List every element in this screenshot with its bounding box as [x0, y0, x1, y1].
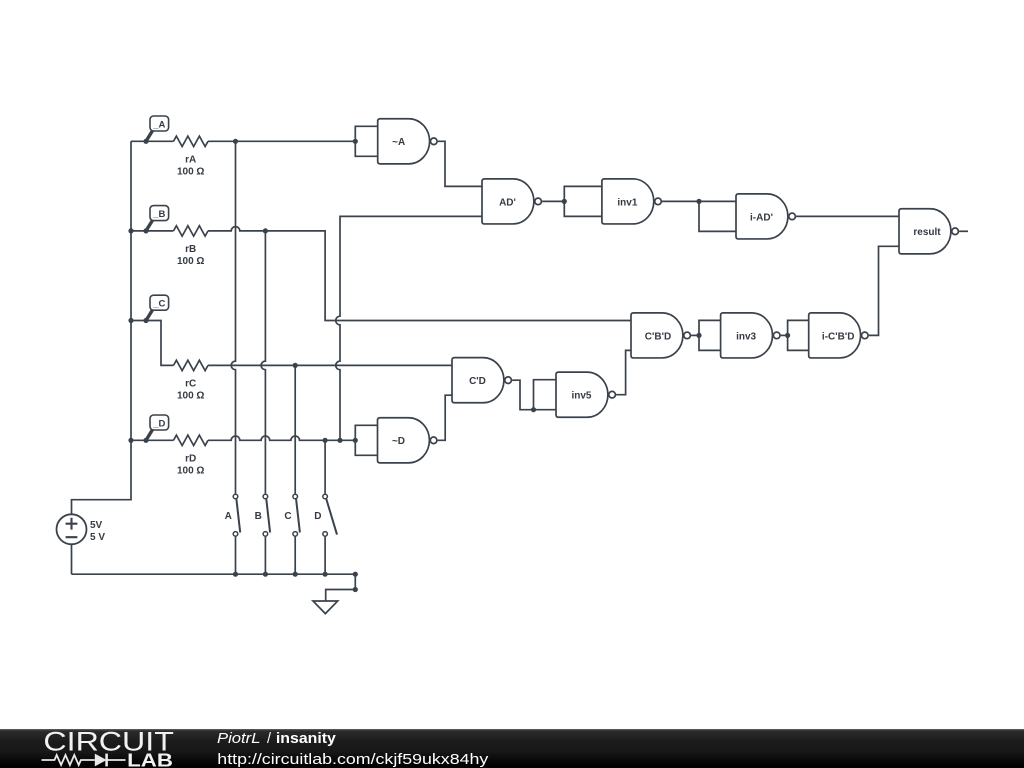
resistor rA: [174, 136, 209, 177]
NAND gate i-C&#39;B&#39;D (U8): [809, 313, 868, 358]
resistor rC: [174, 360, 209, 401]
wire row A from rA to ~A input tie: [208, 140, 355, 142]
svg-text:~A: ~A: [392, 137, 405, 148]
svg-text:_B: _B: [152, 209, 165, 220]
NAND gate ~A (U1): [378, 119, 437, 164]
svg-text:100 Ω: 100 Ω: [177, 167, 204, 178]
node junction row C / column C: [293, 363, 298, 368]
svg-text:AD': AD': [499, 197, 516, 208]
svg-text:B: B: [255, 511, 262, 522]
svg-text:100 Ω: 100 Ω: [177, 466, 204, 477]
svg-text:result: result: [913, 227, 941, 238]
wire ~A output to AD&#39; top input: [438, 141, 482, 186]
wire ground rail: [72, 573, 356, 575]
node rail junction A: [233, 572, 238, 577]
wire i-C&#39;B&#39;D output up to result bottom input: [869, 246, 899, 335]
node junction row B / column B: [263, 228, 268, 233]
node flag _A: [146, 116, 169, 141]
node inv5 tie junction: [531, 407, 536, 412]
wire C&#39;B&#39;D output to inv3 tie: [691, 334, 699, 336]
wire inv5 output up to C&#39;B&#39;D bottom input: [616, 350, 631, 394]
switch A: [225, 494, 241, 536]
svg-text:_C: _C: [152, 299, 165, 310]
NAND gate ~D (U11): [378, 418, 437, 463]
wire row D from rD to ~D input tie: [208, 436, 355, 440]
svg-text:rD: rD: [185, 454, 196, 465]
NAND gate i-AD&#39; (U4): [736, 194, 795, 239]
wire inv3 output to i-C&#39;B&#39;D tie: [781, 334, 788, 336]
wire result output stub: [959, 230, 968, 232]
svg-text:inv1: inv1: [617, 197, 637, 208]
node junction row D / AD&#39; input wire: [337, 438, 342, 443]
NAND gate inv5 (U10): [556, 372, 615, 417]
svg-text:5V: 5V: [90, 520, 103, 531]
wire row B lead from bus to rB: [131, 230, 174, 232]
node ~D tie junction: [353, 438, 358, 443]
NAND gate result (U5): [899, 209, 958, 254]
node junction row D / column D: [323, 438, 328, 443]
svg-text:i-C'B'D: i-C'B'D: [822, 331, 855, 342]
NAND gate AD&#39; (U2): [482, 179, 541, 224]
node rail junction C: [293, 572, 298, 577]
node rail junction D: [323, 572, 328, 577]
wire inv1 output to i-AD&#39; tie: [662, 200, 699, 202]
wire switch A to ground rail: [235, 537, 237, 575]
svg-text:C'D: C'D: [469, 376, 486, 387]
switch D: [314, 494, 337, 536]
node inv3 tie junction: [696, 333, 701, 338]
wire i-AD&#39; input tie: [699, 201, 736, 231]
node flag _A attach: [143, 139, 148, 144]
svg-text:A: A: [225, 511, 232, 522]
wire ~D input tie: [355, 425, 377, 455]
svg-text:C'B'D: C'B'D: [645, 331, 671, 342]
svg-text:inv5: inv5: [571, 391, 591, 402]
svg-text:_D: _D: [152, 418, 165, 429]
wire i-C&#39;B&#39;D input tie: [788, 320, 809, 350]
wire row C jog from bus down to rC: [131, 321, 174, 366]
wire switch D to ground rail: [324, 537, 326, 575]
node rail drop corner: [353, 587, 358, 592]
node i-C&#39;B&#39;D tie junction: [785, 333, 790, 338]
wire switch C to ground rail: [294, 537, 296, 575]
wire row C from rC to C&#39;D top input: [208, 364, 452, 366]
svg-text:D: D: [314, 511, 321, 522]
NAND gate C&#39;B&#39;D (U6): [631, 313, 690, 358]
node flag _B attach: [143, 228, 148, 233]
node flag _D: [146, 415, 169, 440]
wire left bus from row A down to V1 plus terminal: [72, 141, 132, 514]
wire V1 minus terminal to rail: [71, 544, 73, 574]
NAND gate inv1 (U3): [602, 179, 661, 224]
wire C&#39;D output to inv5 tie: [512, 380, 533, 410]
svg-text:i-AD': i-AD': [750, 212, 773, 223]
node inv1 tie junction: [562, 199, 567, 204]
footer bar: [0, 729, 1024, 768]
svg-text:inv3: inv3: [736, 331, 756, 342]
svg-text:~D: ~D: [392, 436, 405, 447]
wire column A vertical (row A to switch A): [231, 141, 235, 494]
resistor rD: [174, 435, 209, 476]
wire column B vertical (row B to switch B): [261, 231, 265, 494]
wire inv3 input tie: [699, 320, 721, 350]
node rail junction B: [263, 572, 268, 577]
node i-AD&#39; tie junction: [696, 199, 701, 204]
ground: [313, 601, 338, 614]
wire i-AD&#39; output to result top input: [796, 215, 899, 217]
wire inv5 input tie: [534, 380, 557, 410]
node flag _D attach: [143, 438, 148, 443]
wire AD&#39; bottom input wire down to row D: [336, 216, 482, 440]
node junction bus / row B: [128, 228, 133, 233]
switch B: [255, 494, 271, 536]
wire row A lead from bus to rA: [131, 140, 174, 142]
NAND gate C&#39;D (U9): [452, 358, 511, 403]
wire column C vertical (row C to switch C): [294, 365, 296, 493]
node flag _C attach: [143, 318, 148, 323]
wire ~A input tie: [355, 126, 377, 156]
switch C: [284, 494, 300, 536]
node flag _B: [146, 206, 169, 231]
node junction row A / column A: [233, 139, 238, 144]
NAND gate inv3 (U7): [721, 313, 780, 358]
node rail corner: [353, 572, 358, 577]
wire AD&#39; output to inv1 tie: [542, 200, 564, 202]
svg-text:rA: rA: [185, 155, 196, 166]
svg-text:100 Ω: 100 Ω: [177, 256, 204, 267]
wire row B from rB, down at x=325, to C&#39;B&#39;D top input: [208, 227, 631, 321]
svg-text:100 Ω: 100 Ω: [177, 391, 204, 402]
node flag _C: [146, 295, 169, 320]
wire ~D output to C&#39;D bottom input: [438, 395, 452, 440]
resistor rB: [174, 226, 209, 267]
node junction bus / row D: [128, 438, 133, 443]
wire column D vertical (row D to switch D): [324, 440, 326, 494]
svg-text:rB: rB: [185, 244, 196, 255]
node ~A tie junction: [353, 139, 358, 144]
svg-text:C: C: [284, 511, 291, 522]
wire row D lead from bus to rD: [131, 439, 174, 441]
node junction bus / row C: [128, 318, 133, 323]
wire rail to ground symbol: [326, 574, 356, 601]
wire switch B to ground rail: [264, 537, 266, 575]
svg-text:5 V: 5 V: [90, 532, 105, 543]
voltage source V1 5V: [57, 514, 106, 544]
svg-text:_A: _A: [152, 119, 165, 130]
svg-text:rC: rC: [185, 379, 196, 390]
wire inv1 input tie: [564, 186, 602, 216]
CircuitLab logo resistor-diode art: [42, 754, 126, 767]
